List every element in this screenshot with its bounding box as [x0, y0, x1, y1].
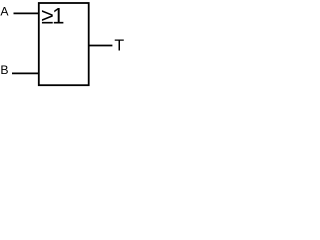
svg-text:T: T — [114, 38, 124, 55]
OR gate U1 (IEC rectangular body) — [39, 3, 89, 85]
svg-text:A: A — [0, 5, 9, 19]
wire T (gate output) — [89, 45, 113, 47]
svg-text:B: B — [0, 63, 8, 77]
wire A (input A to gate) — [14, 12, 39, 14]
svg-text:≥1: ≥1 — [41, 3, 64, 28]
wire B (input B to gate) — [12, 72, 39, 74]
